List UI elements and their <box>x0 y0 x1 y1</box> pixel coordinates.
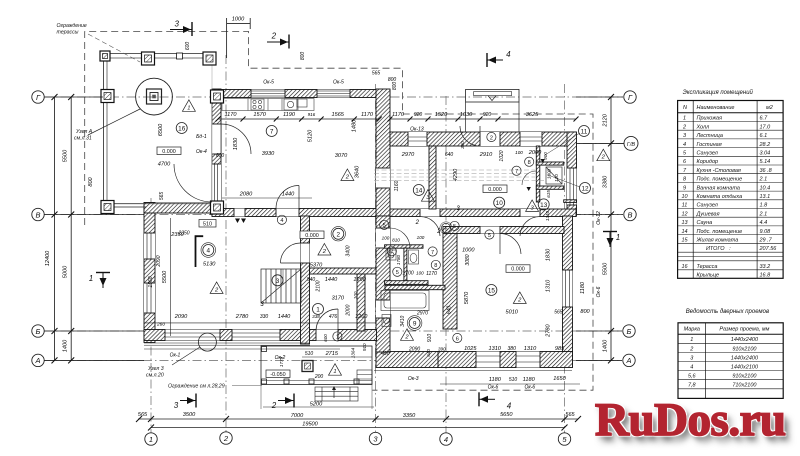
svg-text:910х2100: 910х2100 <box>732 374 757 380</box>
svg-text:36 .8: 36 .8 <box>760 168 773 174</box>
svg-text:1310: 1310 <box>524 346 537 352</box>
porch posts <box>262 379 267 384</box>
svg-text:8: 8 <box>528 160 531 166</box>
svg-text:910х2100: 910х2100 <box>732 346 757 352</box>
svg-text:Ограждение см л.28,29: Ограждение см л.28,29 <box>168 384 225 390</box>
svg-text:Ок-6: Ок-6 <box>488 385 499 391</box>
table: door openings grid <box>678 323 783 399</box>
svg-text:910: 910 <box>427 334 433 343</box>
svg-text:490: 490 <box>381 351 390 357</box>
ticks kitchen dim row <box>216 117 221 122</box>
svg-text:2: 2 <box>271 401 277 410</box>
top dim line 1000 <box>227 23 251 25</box>
svg-text:0.000: 0.000 <box>511 267 525 273</box>
axis 4 vertical <box>445 96 447 433</box>
svg-text:1400: 1400 <box>63 339 69 352</box>
svg-text:6: 6 <box>683 159 687 165</box>
svg-text:16: 16 <box>178 126 186 133</box>
svg-text:-0.050: -0.050 <box>270 372 285 378</box>
svg-text:3: 3 <box>174 401 179 410</box>
svg-text:28.2: 28.2 <box>759 142 771 148</box>
svg-text:1160: 1160 <box>394 180 400 191</box>
svg-text:3: 3 <box>174 20 179 29</box>
flue duct living room <box>196 236 204 267</box>
elevation box -0.050 porch <box>266 370 290 378</box>
svg-text:1440х2400: 1440х2400 <box>731 355 759 361</box>
axis circle А left <box>32 354 44 366</box>
svg-text:10: 10 <box>681 194 688 200</box>
upper mini stair lines <box>282 269 284 285</box>
svg-text:640: 640 <box>445 152 454 158</box>
svg-text:Б: Б <box>36 327 41 336</box>
porch top dim line <box>302 356 372 358</box>
svg-text:1170: 1170 <box>361 112 374 118</box>
openings in party wall lower <box>376 228 390 248</box>
svg-text:16.8: 16.8 <box>760 273 772 279</box>
axis Г/В horizontal <box>385 142 624 144</box>
svg-text:2: 2 <box>322 249 327 255</box>
svg-text:Подс. помещение: Подс. помещение <box>697 229 743 235</box>
window in bottom wall right block 2 <box>516 352 540 368</box>
svg-text:330: 330 <box>260 314 269 320</box>
svg-text:1650: 1650 <box>553 376 566 382</box>
door circle 2 <box>487 132 496 141</box>
svg-text:100: 100 <box>417 235 425 240</box>
door circle 4 <box>277 215 286 224</box>
svg-text:100: 100 <box>416 270 424 275</box>
kitchen top inner dim line <box>218 118 379 120</box>
svg-text:120: 120 <box>554 174 559 182</box>
porch steps arrow <box>333 388 335 398</box>
svg-text:Ограждение: Ограждение <box>57 23 87 29</box>
room circle 3 <box>272 275 283 286</box>
window Ок-12 in right wall <box>567 168 577 205</box>
svg-text:3: 3 <box>690 355 694 361</box>
svg-text:13.1: 13.1 <box>760 194 771 200</box>
svg-text:Узел 3: Узел 3 <box>148 366 164 372</box>
axis circle А right <box>623 354 635 366</box>
window Ок-5 left in top wall <box>251 90 285 98</box>
svg-text:33.2: 33.2 <box>760 264 771 270</box>
kitchen right wall (party wall) <box>376 89 390 216</box>
svg-text:Марка: Марка <box>684 327 700 333</box>
door opening room 15 top <box>480 227 500 234</box>
svg-text:2: 2 <box>689 346 693 352</box>
svg-text:1180: 1180 <box>523 377 536 383</box>
svg-text:1: 1 <box>690 337 693 343</box>
room circle 16 <box>176 123 187 134</box>
svg-text:Холл: Холл <box>696 124 710 130</box>
svg-text:1: 1 <box>683 116 686 122</box>
svg-text:12400: 12400 <box>45 250 51 266</box>
svg-text:11: 11 <box>581 129 588 136</box>
triangle 2 right outside <box>597 149 610 161</box>
column left lower <box>101 201 114 214</box>
svg-text:2970: 2970 <box>401 152 415 158</box>
svg-text:5: 5 <box>683 151 687 157</box>
svg-text:1: 1 <box>333 369 336 375</box>
svg-text:1: 1 <box>149 435 153 444</box>
svg-text:Санузел: Санузел <box>697 203 718 209</box>
right horizontal connectors <box>576 96 623 98</box>
svg-text:800: 800 <box>392 82 398 91</box>
column top mid1 <box>142 52 155 65</box>
svg-text:6: 6 <box>444 226 447 232</box>
partition under stairs horizontal <box>310 268 377 274</box>
left total dim line 12400 <box>54 97 56 360</box>
axis 3 vertical <box>375 84 377 433</box>
porch post central <box>302 361 313 372</box>
door arc Г/В wall <box>460 126 480 146</box>
door opening 2 in Г/В wall <box>480 132 500 146</box>
axis circle Г/В right <box>624 136 638 150</box>
svg-text:2: 2 <box>214 287 219 293</box>
svg-text:4: 4 <box>444 435 448 444</box>
svg-text:Коридор: Коридор <box>697 159 719 165</box>
door arc party wall upper <box>390 228 410 248</box>
svg-text:1290: 1290 <box>353 277 366 283</box>
svg-text:985: 985 <box>555 346 565 352</box>
svg-text:1170: 1170 <box>224 112 237 118</box>
door circle 7 <box>428 247 437 256</box>
svg-text:8: 8 <box>434 263 437 269</box>
svg-text:1190: 1190 <box>283 112 296 118</box>
svg-text:Ок-2: Ок-2 <box>275 355 286 361</box>
svg-text:Ок-6: Ок-6 <box>524 385 535 391</box>
partition room 11 bottom <box>536 162 564 165</box>
door circle 7b <box>512 166 521 175</box>
svg-text:4: 4 <box>207 248 211 255</box>
svg-text:Ок-1: Ок-1 <box>170 353 181 359</box>
svg-text:Экспликация помещений: Экспликация помещений <box>683 89 754 96</box>
balcony door Бд-1 opening <box>212 164 221 202</box>
svg-text:1170: 1170 <box>426 271 437 277</box>
door arc В wall right 1 <box>420 217 440 237</box>
door opening in kitchen left wall <box>212 124 221 154</box>
svg-text:2090: 2090 <box>408 347 420 353</box>
svg-text:920: 920 <box>414 112 423 118</box>
svg-text:3170: 3170 <box>332 296 345 302</box>
window in Г/В wall right <box>520 132 542 146</box>
svg-text:4290: 4290 <box>453 168 459 181</box>
door circle 6b <box>453 333 462 342</box>
svg-text:800: 800 <box>88 176 94 186</box>
svg-text:Гостиная: Гостиная <box>697 142 722 148</box>
porch dim line 5200 <box>263 406 374 408</box>
axis circle 5 <box>558 433 570 445</box>
partition corridor top <box>385 245 423 248</box>
svg-text:3380: 3380 <box>603 175 609 188</box>
door arc kitchen bottom 1440 <box>276 186 299 209</box>
svg-text:Душевая: Душевая <box>696 211 720 217</box>
svg-text:5: 5 <box>383 223 386 229</box>
staircase <box>261 269 301 303</box>
partition room 14 right <box>429 146 436 209</box>
svg-text:9.08: 9.08 <box>760 229 772 235</box>
svg-text:Ок-12: Ок-12 <box>596 211 602 225</box>
svg-text:В: В <box>627 210 632 219</box>
svg-text:Бд-1: Бд-1 <box>196 134 207 140</box>
elevation box 0.000 room15 <box>506 265 530 273</box>
svg-text:Б: Б <box>627 327 632 336</box>
svg-text:5120: 5120 <box>308 129 314 142</box>
left segment dim line <box>70 97 72 360</box>
door arc В wall right 2 <box>520 217 540 237</box>
door arc room15 top <box>500 234 521 255</box>
axis В horizontal <box>44 214 623 216</box>
svg-text:2970: 2970 <box>416 311 428 317</box>
partition room 12 bottom <box>536 186 564 189</box>
terrace left wall <box>103 54 105 211</box>
svg-text:1000: 1000 <box>547 168 552 179</box>
svg-text:600: 600 <box>323 334 328 342</box>
svg-text:1700: 1700 <box>403 270 414 276</box>
svg-text:910: 910 <box>362 343 367 351</box>
svg-text:900: 900 <box>543 152 548 160</box>
door circle 8 <box>431 260 440 269</box>
svg-text:В: В <box>35 210 40 219</box>
svg-text:2090: 2090 <box>156 255 162 267</box>
svg-text:13: 13 <box>681 220 688 226</box>
svg-text:2: 2 <box>404 334 409 340</box>
svg-text:565: 565 <box>138 412 148 418</box>
svg-text:1310: 1310 <box>545 210 550 221</box>
svg-text:2910: 2910 <box>479 152 493 158</box>
svg-text:207.56: 207.56 <box>759 246 778 252</box>
party wall lower part <box>376 216 390 352</box>
svg-text:13: 13 <box>540 202 548 209</box>
porch steps <box>315 387 358 401</box>
door arc hall to living <box>281 243 301 263</box>
axis А horizontal <box>44 359 622 361</box>
bottom total dim line 19500 <box>151 427 565 429</box>
svg-text:1180: 1180 <box>580 281 586 294</box>
bottom window dim line right <box>440 383 580 385</box>
svg-text:0.000: 0.000 <box>162 149 176 155</box>
svg-text:Наименование: Наименование <box>697 105 735 111</box>
svg-text:800: 800 <box>300 52 306 61</box>
table: door openings text <box>684 327 770 389</box>
door circle 7c <box>387 247 396 256</box>
svg-text:1440х2400: 1440х2400 <box>731 337 759 343</box>
floor dashed lines <box>374 169 535 171</box>
svg-text:1170: 1170 <box>392 112 405 118</box>
svg-text:8: 8 <box>683 177 687 183</box>
window Ок-б in right wall lower <box>563 270 573 307</box>
svg-text:600: 600 <box>216 153 225 159</box>
wall Г/В right block <box>390 132 576 146</box>
svg-text:3640: 3640 <box>355 165 361 178</box>
svg-text:7,8: 7,8 <box>688 383 697 389</box>
svg-text:2000: 2000 <box>528 150 542 156</box>
svg-text:2.1: 2.1 <box>759 211 768 217</box>
door arc balcony to terrace <box>174 164 212 202</box>
svg-text:5: 5 <box>396 270 399 276</box>
svg-text:7: 7 <box>431 250 434 256</box>
sink room 9 <box>382 315 391 327</box>
axis circle Б right <box>623 325 635 337</box>
openings in В wall right part <box>420 209 440 217</box>
door circle 5c <box>380 220 389 229</box>
svg-text:1400: 1400 <box>603 339 609 352</box>
svg-text:1: 1 <box>336 335 339 341</box>
svg-text:3410: 3410 <box>400 316 406 327</box>
svg-text:1830: 1830 <box>546 248 552 261</box>
bottom wall between blocks <box>376 352 438 368</box>
elevation box 510 <box>199 220 216 228</box>
svg-text:100: 100 <box>515 150 523 155</box>
svg-text:2: 2 <box>682 124 686 130</box>
living room bottom wall on axis Б <box>144 330 377 341</box>
svg-text:3: 3 <box>683 133 687 139</box>
svg-text:Узел А: Узел А <box>76 129 93 135</box>
svg-text:615: 615 <box>546 190 551 198</box>
svg-text:10: 10 <box>496 200 504 207</box>
svg-text:4: 4 <box>690 365 693 371</box>
door arc entrance <box>316 309 338 331</box>
svg-text:2090: 2090 <box>174 314 188 320</box>
svg-text:380: 380 <box>460 141 465 149</box>
ticks left lines <box>52 94 58 100</box>
svg-text:1180: 1180 <box>489 377 502 383</box>
svg-text:17.0: 17.0 <box>760 124 772 130</box>
bottom wall right block on axis А <box>438 352 573 368</box>
svg-text:5: 5 <box>453 224 456 230</box>
svg-text:1.8: 1.8 <box>760 203 769 209</box>
svg-text:1440: 1440 <box>278 314 291 320</box>
svg-text:Ок-5: Ок-5 <box>263 79 274 85</box>
door arc room 12 <box>522 171 536 185</box>
svg-text:1030: 1030 <box>460 112 473 118</box>
svg-text:12: 12 <box>681 211 687 217</box>
svg-text:1310: 1310 <box>488 346 501 352</box>
svg-text:1000: 1000 <box>232 17 245 23</box>
left horizontal connectors at axes <box>44 96 103 98</box>
svg-text:5000: 5000 <box>63 265 69 278</box>
svg-text:см.л.20: см.л.20 <box>146 373 164 379</box>
wc room 5 <box>409 250 419 264</box>
room circle 9 <box>407 316 422 331</box>
svg-text:3625: 3625 <box>526 112 539 118</box>
svg-text:1440х2100: 1440х2100 <box>731 365 759 371</box>
svg-text:100: 100 <box>353 291 358 299</box>
svg-text:260: 260 <box>156 322 165 328</box>
watermark RuDos.ru <box>595 393 800 447</box>
svg-text:5650: 5650 <box>500 412 513 418</box>
svg-text:3: 3 <box>276 278 280 285</box>
svg-text:1020: 1020 <box>499 150 505 161</box>
triangle 2 kitchen <box>341 169 354 181</box>
svg-text:2: 2 <box>517 297 522 303</box>
svg-text:1570: 1570 <box>253 112 266 118</box>
svg-text:5870: 5870 <box>464 291 470 304</box>
svg-text:5130: 5130 <box>203 262 216 268</box>
kitchen counter row <box>222 99 314 111</box>
room circle 14 <box>413 185 424 196</box>
svg-text:Крыльце: Крыльце <box>697 273 720 279</box>
svg-text:0.000: 0.000 <box>488 187 502 193</box>
svg-text:1780: 1780 <box>396 254 401 265</box>
ticks right block dim row <box>388 117 393 122</box>
svg-text:5010: 5010 <box>505 310 518 316</box>
svg-text:565: 565 <box>554 310 563 316</box>
svg-text:5.14: 5.14 <box>760 159 771 165</box>
svg-text:1025: 1025 <box>464 346 477 352</box>
triangle 3 room13 <box>526 200 539 212</box>
column left on axis Г <box>101 90 114 103</box>
window Ок-13 opening <box>408 132 427 146</box>
svg-text:см.л.31: см.л.31 <box>74 136 92 142</box>
svg-text:6500: 6500 <box>158 123 164 136</box>
porch side steps right <box>357 370 372 384</box>
svg-text:1440: 1440 <box>325 277 338 283</box>
right dim line <box>610 97 612 360</box>
axis circle 1 <box>145 433 157 445</box>
terrace inner boundary <box>107 58 212 204</box>
shower cabin room 12 <box>546 167 562 184</box>
svg-text:640: 640 <box>426 349 431 357</box>
window Ок-5 right in top wall <box>317 90 350 98</box>
triangle 2 room15 <box>513 292 526 304</box>
svg-text:600: 600 <box>185 42 191 51</box>
svg-text:Сауна: Сауна <box>697 220 713 226</box>
svg-text:0.000: 0.000 <box>305 233 319 239</box>
footing line below Б wall <box>144 342 310 344</box>
svg-text:1560: 1560 <box>148 276 154 287</box>
opening in party wall <box>376 168 390 188</box>
axis circle Г right <box>624 91 636 103</box>
svg-text:4.4: 4.4 <box>760 220 768 226</box>
leader line from circle 11 <box>545 133 580 155</box>
svg-text:510: 510 <box>203 221 212 227</box>
svg-text:2: 2 <box>337 231 341 238</box>
door circle 5b <box>485 230 494 239</box>
terrace top wall <box>102 53 216 55</box>
roof overhang dashed outline <box>85 32 593 391</box>
svg-text:1: 1 <box>89 274 93 283</box>
svg-text:4: 4 <box>683 142 686 148</box>
column at house wall bottom <box>211 201 224 214</box>
svg-text:2350: 2350 <box>177 231 189 237</box>
svg-text:5200: 5200 <box>310 402 323 408</box>
axis circle 2 <box>220 432 232 444</box>
room circle 13 <box>538 199 549 210</box>
svg-text:10.4: 10.4 <box>760 185 771 191</box>
leader line from circle 12 <box>548 175 580 187</box>
svg-text:Ок-13: Ок-13 <box>410 127 424 133</box>
svg-text:800: 800 <box>580 309 590 315</box>
triangle 3 room14 <box>421 190 434 202</box>
svg-text:Кухня -Столовая: Кухня -Столовая <box>697 168 741 174</box>
svg-text:476: 476 <box>329 314 338 320</box>
svg-text:Терасса: Терасса <box>697 264 718 270</box>
svg-text:15: 15 <box>488 288 496 295</box>
window 2 in left wall <box>144 283 155 313</box>
svg-text:200: 200 <box>314 374 324 380</box>
washer <box>386 250 396 260</box>
kitchen appliances <box>251 99 264 110</box>
svg-text:5500: 5500 <box>63 149 69 162</box>
door circle 1b <box>333 332 342 341</box>
room circle 15 <box>486 285 497 296</box>
svg-text:5: 5 <box>488 233 491 239</box>
svg-text:N: N <box>683 105 687 111</box>
svg-text:ИТОГО :: ИТОГО : <box>706 246 731 252</box>
svg-text:4: 4 <box>280 218 283 224</box>
window in bottom wall right block 1 <box>476 352 500 368</box>
top wall of room 15 <box>443 227 564 234</box>
svg-text:Ок-5: Ок-5 <box>333 79 344 85</box>
